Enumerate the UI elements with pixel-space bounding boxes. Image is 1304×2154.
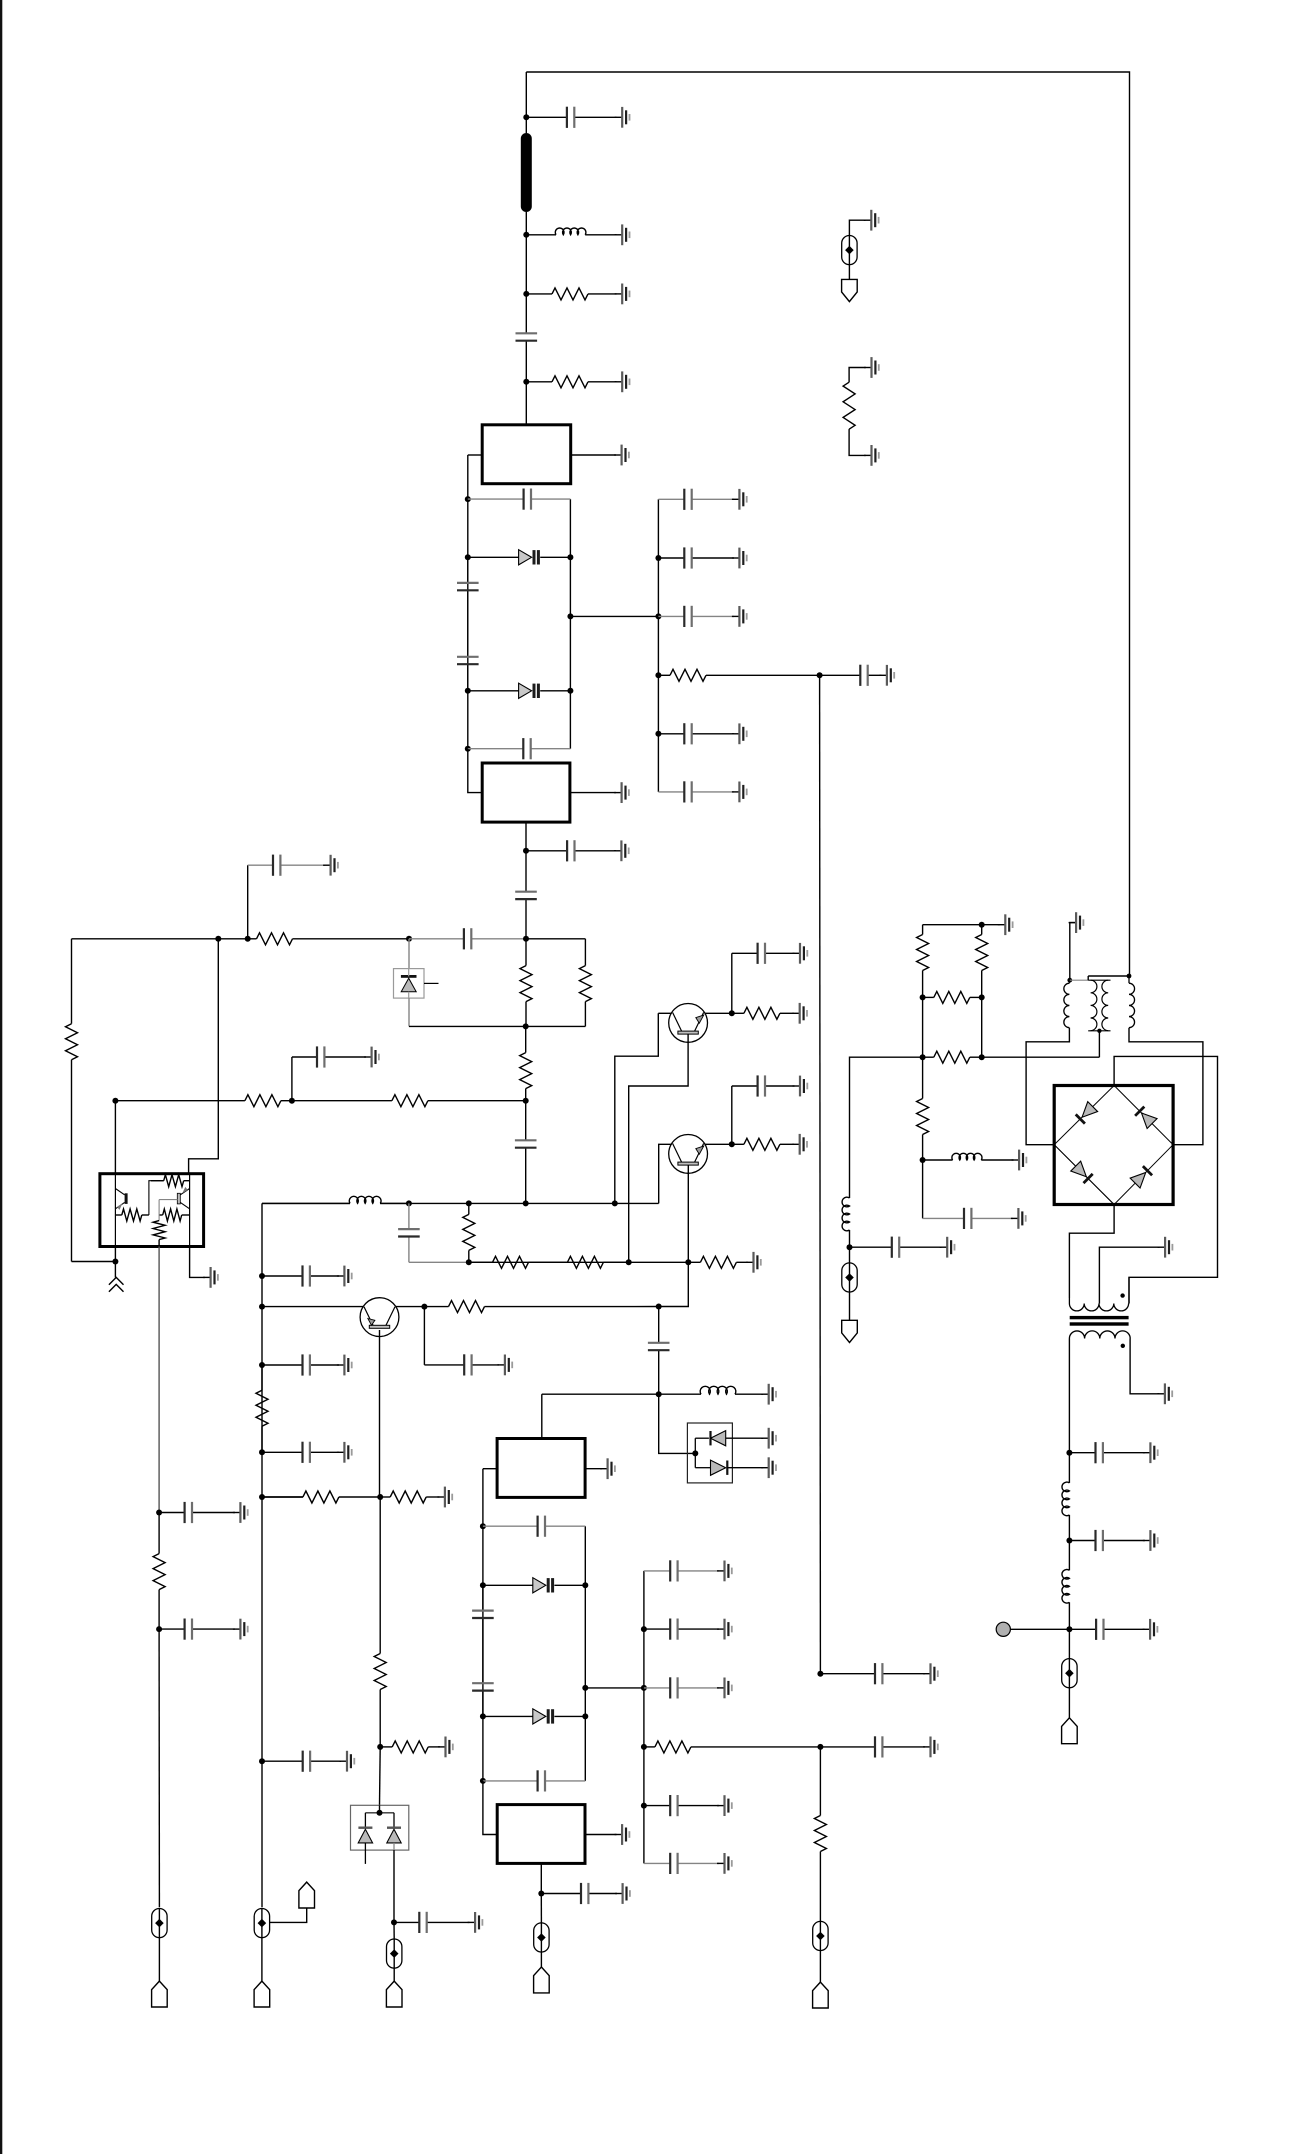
resistor R24 — [658, 669, 819, 681]
capacitor C20 — [648, 1307, 670, 1395]
junction — [289, 1098, 295, 1104]
ground R1 — [615, 284, 630, 305]
wire R23 top — [849, 368, 866, 383]
ground R23 top — [864, 357, 879, 378]
U5 resistor Rc — [159, 1209, 190, 1221]
wire Q1 emitter — [629, 1034, 688, 1262]
wire Q2 emitter — [687, 1165, 689, 1262]
wire U1 pin1 — [468, 454, 482, 456]
junction — [582, 1685, 588, 1691]
wire rail — [262, 1202, 350, 1204]
ground C38 — [732, 548, 747, 569]
resistor R11 — [463, 1203, 475, 1262]
probe P4 — [534, 1923, 549, 1952]
transformer T2 primary — [1069, 1277, 1129, 1311]
subcircuit U3 — [497, 1439, 585, 1498]
junction — [567, 688, 573, 694]
capacitor C13 — [262, 1265, 339, 1286]
wire port0 — [849, 220, 865, 235]
wire U5 pin4 — [190, 1247, 205, 1278]
transformer T1 winding A — [1064, 980, 1070, 1027]
wire — [247, 865, 249, 939]
wire — [540, 1894, 542, 1924]
junction — [406, 936, 412, 942]
capacitor C19 — [732, 1075, 795, 1096]
inductor L1 — [526, 228, 616, 235]
ground C16 — [340, 1751, 355, 1772]
junction D5 — [377, 1810, 383, 1816]
resistor R5 — [520, 939, 532, 1027]
junction — [656, 1391, 662, 1397]
junction — [421, 1304, 427, 1310]
junction — [729, 1010, 735, 1016]
ground C27 — [717, 1561, 732, 1582]
junction — [612, 1200, 618, 1206]
wire bridge bottom — [1069, 1205, 1114, 1299]
junction — [641, 1626, 647, 1632]
junction — [112, 1098, 118, 1104]
ground L1 — [615, 224, 630, 245]
junction — [480, 1778, 486, 1784]
capacitor C9 — [409, 928, 526, 949]
junction — [655, 731, 661, 737]
ground C34 — [233, 1619, 248, 1640]
junction — [406, 1200, 412, 1206]
resistor R3 — [248, 933, 409, 945]
capacitor C47 — [923, 1208, 1013, 1229]
bridge rectifier box — [1054, 1086, 1173, 1205]
capacitor C7 — [526, 840, 616, 861]
wire Q1 bias — [615, 1013, 659, 1203]
ground C18 — [793, 943, 808, 964]
wire — [525, 212, 527, 235]
capacitor C36 — [820, 1736, 925, 1757]
subcircuit U2 — [482, 763, 570, 822]
wire T1 tap — [1098, 1031, 1100, 1057]
port 1 — [152, 1981, 168, 2007]
ground C12 — [364, 1047, 379, 1068]
capacitor C41 — [658, 723, 734, 744]
ground C42 — [732, 782, 747, 803]
resistor R29 — [917, 1057, 929, 1160]
wire R23 bottom — [849, 429, 866, 455]
wire rail — [72, 938, 219, 940]
port 2 — [254, 1981, 270, 2007]
capacitor C39 — [658, 606, 734, 627]
wire to L4 — [850, 1057, 923, 1198]
capacitor C10 — [248, 855, 325, 876]
junction T1 tap — [1097, 1029, 1101, 1033]
resistor R28 — [923, 1051, 982, 1063]
junction — [465, 746, 471, 752]
ground R14 — [746, 1252, 761, 1273]
wire to bus — [585, 1687, 644, 1689]
chassis ground — [109, 1262, 124, 1292]
U5 internal right line — [189, 1175, 191, 1247]
wire — [819, 1951, 821, 1983]
ground C45 — [1143, 1530, 1158, 1551]
junction — [920, 1054, 926, 1060]
junction — [156, 1626, 162, 1632]
capacitor C22 — [483, 1516, 585, 1537]
resistor R12 — [469, 1256, 568, 1268]
port 6 — [842, 1320, 858, 1342]
resistor R14 — [688, 1256, 748, 1268]
capacitor C26 — [541, 1883, 617, 1904]
junction — [641, 1803, 647, 1809]
wire T1 top link — [1088, 975, 1129, 977]
wire — [72, 1261, 116, 1263]
wire — [261, 1938, 263, 1981]
junction — [480, 1582, 486, 1588]
wire into U1 — [525, 382, 527, 425]
probe P7 — [1062, 1659, 1077, 1688]
capacitor C25 — [483, 1770, 585, 1791]
junction — [655, 672, 661, 678]
wire Q1 right — [705, 1012, 732, 1014]
ground T1 — [1069, 912, 1084, 933]
junction — [582, 1713, 588, 1719]
capacitor C33 — [159, 1502, 235, 1523]
port 5 — [813, 1982, 829, 2008]
junction — [377, 1744, 383, 1750]
wire — [849, 1292, 851, 1320]
ground C15 — [337, 1442, 352, 1463]
transformer T1 winding B — [1088, 980, 1110, 1031]
junction — [466, 1259, 472, 1265]
junction D10 — [692, 1450, 698, 1456]
wire to limiter — [659, 1394, 696, 1453]
junction — [656, 1304, 662, 1310]
ground C14 — [337, 1355, 352, 1376]
wire — [393, 1968, 395, 1981]
resistor R20 — [380, 1741, 440, 1753]
junction — [582, 1582, 588, 1588]
wire — [1068, 1688, 1070, 1718]
capacitor C21 — [424, 1354, 499, 1375]
wire zener bottom — [408, 998, 410, 1026]
wire to U3 — [542, 1393, 659, 1395]
wire U3 pin1 — [483, 1468, 497, 1470]
junction — [391, 1919, 397, 1925]
inductor L7 — [923, 1153, 1014, 1160]
capacitor C6 — [468, 738, 571, 759]
junction — [523, 936, 529, 942]
probe P2 — [254, 1909, 269, 1938]
junction — [567, 613, 573, 619]
inductor L3 — [659, 1386, 763, 1394]
ground T2 tap — [1158, 1237, 1173, 1258]
U5 internal left line — [114, 1174, 116, 1247]
ground R16 — [792, 1134, 807, 1155]
capacitor C32 — [394, 1912, 470, 1933]
ground C26 — [615, 1883, 630, 1904]
transformer T2 secondary — [1069, 1331, 1130, 1348]
varactor diode D3 — [483, 1578, 585, 1593]
wire U2 pin2 — [570, 792, 616, 794]
junction — [817, 672, 823, 678]
U5 transistor QB — [177, 1187, 189, 1209]
wire zener top — [408, 939, 410, 969]
junction — [655, 613, 661, 619]
ground C37 — [732, 489, 747, 510]
bridge diode DB1 — [1075, 1102, 1097, 1124]
resistor R15 — [732, 1007, 794, 1019]
junction — [259, 1758, 265, 1764]
wire left rail 2 — [482, 1469, 484, 1781]
wire to bypass bus — [570, 615, 658, 617]
capacitor C42 — [658, 781, 734, 802]
bridge diode DB2 — [1135, 1106, 1157, 1128]
wire into U5 — [114, 1101, 116, 1174]
wire — [158, 1938, 160, 1981]
probe P3 — [387, 1939, 402, 1968]
ground C31 — [717, 1853, 732, 1874]
resistor R1 — [526, 288, 616, 300]
junction — [523, 291, 529, 297]
U5 resistor Rd — [153, 1221, 165, 1247]
varactor diode D4 — [483, 1709, 585, 1724]
junction — [641, 1685, 647, 1691]
resistor R27 — [923, 991, 982, 1003]
junction — [979, 994, 985, 1000]
junction — [259, 1449, 265, 1455]
junction — [480, 1523, 486, 1529]
wire — [540, 1952, 542, 1967]
ground C33 — [233, 1502, 248, 1523]
resistor R2 — [526, 376, 616, 388]
varactor diode D2 — [468, 683, 571, 698]
wire U4 out — [540, 1863, 542, 1893]
wire rail — [262, 1496, 303, 1498]
ground R23 bottom — [864, 445, 879, 466]
ground C46 — [1143, 1619, 1158, 1640]
junction — [523, 1200, 529, 1206]
wire — [526, 1025, 586, 1027]
resistor R13 — [567, 1256, 628, 1268]
probe P1 — [152, 1909, 167, 1938]
capacitor C8 — [515, 851, 537, 939]
wire T1 to bridge left — [1026, 1028, 1069, 1145]
ground C47 — [1011, 1208, 1026, 1229]
wire T2 tap to ground — [1099, 1247, 1159, 1303]
wire — [659, 1262, 689, 1306]
capacitor C16 — [262, 1751, 341, 1772]
capacitor C3 — [468, 489, 571, 510]
ground C41 — [732, 723, 747, 744]
resistor R30 — [262, 1491, 380, 1503]
capacitor C45 — [1069, 1530, 1145, 1551]
resistor R18 — [644, 1741, 821, 1753]
junction — [523, 848, 529, 854]
junction — [979, 922, 985, 928]
wire — [291, 1057, 293, 1101]
ground R2 — [615, 371, 630, 392]
resistor R19 — [374, 1654, 386, 1747]
resistor R23 — [843, 382, 855, 429]
ground U2 — [614, 782, 629, 803]
capacitor C1 — [526, 107, 616, 128]
capacitor C23 — [472, 1585, 494, 1660]
zener diode Z1 — [394, 969, 439, 999]
capacitor C28 — [644, 1619, 719, 1640]
wire Q2 right — [705, 1143, 732, 1145]
wire Q3 right — [396, 1306, 425, 1308]
U5 resistor Rb — [115, 1209, 148, 1221]
ground C10 — [323, 855, 338, 876]
ground C44 — [1143, 1442, 1158, 1463]
junction — [920, 994, 926, 1000]
transformer T2 core — [1070, 1316, 1129, 1326]
wire — [1087, 976, 1089, 980]
ground R15 — [792, 1003, 807, 1024]
wire T2 sec right — [1130, 1339, 1159, 1394]
ground C36 — [923, 1737, 938, 1758]
wire net top — [923, 924, 982, 926]
ground C7 — [614, 840, 629, 861]
dual diode D5 — [351, 1805, 409, 1864]
wire U1 pin2 — [571, 454, 616, 456]
capacitor C17 — [398, 1203, 420, 1262]
port 0 — [842, 279, 858, 301]
junction — [567, 554, 573, 560]
bridge diode DB3 — [1071, 1161, 1093, 1183]
U5 wire — [148, 1196, 150, 1215]
junction — [847, 1244, 853, 1250]
ground U1 — [614, 445, 629, 466]
probe P0 — [842, 236, 857, 265]
ground C30 — [717, 1795, 732, 1816]
junction — [655, 555, 661, 561]
wire to Q2 — [659, 1144, 672, 1203]
wire — [982, 924, 1000, 926]
wire bypass bus — [657, 499, 659, 792]
resistor R7 — [520, 1026, 532, 1100]
wire to T1 tap — [982, 1056, 1100, 1058]
port 3 — [386, 1981, 402, 2007]
transistor Q2 — [669, 1135, 708, 1174]
junction — [215, 936, 221, 942]
wire — [981, 997, 983, 1057]
ground U4 — [615, 1824, 630, 1845]
ground D10a — [761, 1428, 776, 1449]
transformer T1 winding C — [1129, 976, 1135, 1028]
ground port0 — [864, 210, 879, 231]
wire — [1068, 1629, 1070, 1658]
capacitor C24 — [472, 1660, 494, 1716]
capacitor C4 — [457, 557, 479, 616]
wire — [409, 1025, 526, 1027]
wire U5 pin — [114, 1247, 116, 1262]
wire — [848, 265, 850, 280]
capacitor C46 — [1069, 1619, 1144, 1640]
resistor R22 — [814, 1747, 826, 1922]
wire side port — [270, 1907, 307, 1922]
ground D10b — [761, 1457, 776, 1478]
wire — [731, 953, 733, 1013]
capacitor C11 — [515, 1101, 537, 1204]
wire bypass bus — [643, 1571, 645, 1864]
resistor R9 — [292, 1095, 526, 1107]
capacitor C44 — [1069, 1442, 1145, 1463]
wire right rail 2 — [584, 1526, 586, 1781]
resistor R26 — [976, 925, 988, 998]
junction — [377, 1494, 383, 1500]
wire U4 pin2 — [585, 1834, 617, 1836]
junction — [523, 1023, 529, 1029]
junction — [245, 936, 251, 942]
wire — [393, 1922, 395, 1939]
U5 wire — [159, 1199, 177, 1201]
capacitor C35 — [820, 1663, 925, 1684]
input terminal — [996, 1622, 1010, 1636]
transistor Q1 — [669, 1004, 708, 1043]
junction — [1066, 1450, 1072, 1456]
wire Q1 left — [658, 1012, 671, 1014]
wire U3 pin2 — [585, 1468, 602, 1470]
ground C19 — [793, 1076, 808, 1097]
wire T1 to ground — [1070, 923, 1076, 981]
wire — [525, 235, 527, 294]
wire — [379, 1747, 382, 1805]
wire — [584, 939, 586, 966]
port 2b — [299, 1882, 315, 1908]
wire U3 in — [541, 1394, 543, 1438]
junction — [538, 1891, 544, 1897]
U5 wire — [149, 1181, 164, 1196]
ground C39 — [732, 606, 747, 627]
junction — [259, 1494, 265, 1500]
junction — [480, 1713, 486, 1719]
ground L3 — [761, 1384, 776, 1405]
wire left rail — [467, 455, 469, 749]
probe P5 — [813, 1921, 828, 1950]
resistor R6 — [579, 966, 591, 1027]
capacitor C18 — [732, 943, 795, 964]
bridge diamond — [1054, 1086, 1173, 1205]
ground U5 — [203, 1267, 218, 1288]
wire rail — [380, 1202, 659, 1204]
junction — [523, 379, 529, 385]
ground T2 sec — [1157, 1383, 1172, 1404]
subcircuit U4 — [497, 1805, 585, 1864]
wire top net to transformer — [526, 72, 1129, 976]
wire — [922, 1160, 924, 1218]
junction — [626, 1259, 632, 1265]
capacitor C2 — [516, 294, 538, 382]
junction — [979, 1054, 985, 1060]
subcircuit U1 — [482, 425, 571, 484]
junction — [523, 1098, 529, 1104]
junction — [1066, 1538, 1072, 1544]
ground L7 — [1012, 1150, 1027, 1171]
capacitor C29 — [644, 1677, 719, 1698]
wire terminal — [1010, 1628, 1069, 1630]
junction — [112, 1259, 118, 1265]
ground net — [998, 914, 1013, 935]
wire to U4 pin1 — [483, 1781, 497, 1835]
ground C43 — [940, 1237, 955, 1258]
capacitor C14 — [262, 1354, 339, 1375]
junction — [920, 1157, 926, 1163]
ground R31 — [437, 1487, 452, 1508]
ground C40 — [879, 665, 894, 686]
diode limiter D10 — [687, 1423, 763, 1483]
ground C35 — [923, 1663, 938, 1684]
wire — [423, 1307, 425, 1365]
wire — [379, 1497, 381, 1654]
ground C1 — [615, 107, 630, 128]
